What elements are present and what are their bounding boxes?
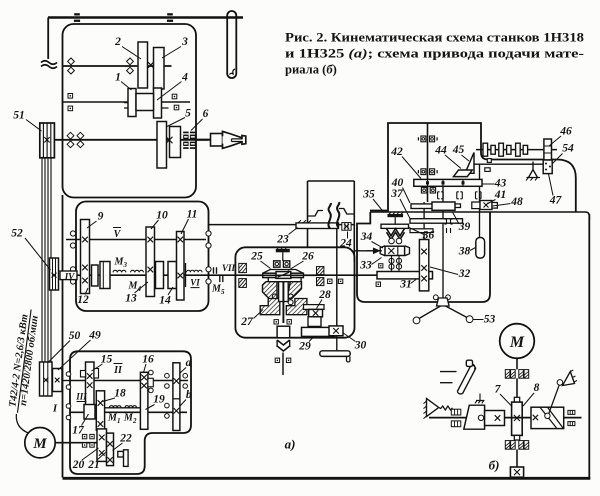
svg-text:39: 39 (458, 221, 471, 233)
svg-text:27: 27 (240, 316, 254, 328)
svg-text:33: 33 (359, 260, 372, 272)
svg-text:3: 3 (181, 36, 188, 48)
svg-text:риала (б): риала (б) (285, 63, 337, 77)
svg-text:54: 54 (562, 143, 574, 155)
svg-text:25: 25 (250, 251, 263, 263)
svg-text:24: 24 (339, 238, 352, 250)
svg-text:21: 21 (87, 459, 100, 471)
svg-text:50: 50 (69, 330, 81, 342)
svg-text:2: 2 (114, 36, 121, 48)
svg-text:42: 42 (390, 146, 403, 158)
svg-text:48: 48 (510, 196, 523, 208)
svg-text:41: 41 (494, 189, 507, 201)
svg-text:19: 19 (153, 394, 165, 406)
svg-text:8: 8 (534, 382, 540, 394)
svg-text:12: 12 (77, 294, 89, 306)
svg-text:I: I (52, 403, 58, 415)
svg-text:б): б) (489, 458, 500, 473)
svg-text:13: 13 (125, 293, 137, 305)
svg-text:40: 40 (391, 177, 404, 189)
svg-text:23: 23 (276, 234, 289, 246)
svg-text:10: 10 (156, 210, 168, 222)
svg-text:52: 52 (11, 228, 23, 240)
svg-text:М: М (509, 334, 525, 351)
svg-text:3: 3 (123, 261, 128, 269)
svg-text:и 1Н325 (а); схема привода под: и 1Н325 (а); схема привода подачи мате- (285, 47, 584, 61)
svg-text:32: 32 (458, 268, 471, 280)
svg-text:5: 5 (221, 288, 225, 296)
svg-text:51: 51 (13, 110, 25, 122)
svg-text:1: 1 (117, 417, 121, 425)
svg-text:43: 43 (494, 178, 507, 190)
svg-text:17: 17 (72, 425, 85, 437)
svg-text:53: 53 (484, 314, 496, 326)
svg-text:4: 4 (181, 72, 188, 84)
svg-text:47: 47 (549, 195, 563, 207)
svg-text:Рис. 2. Кинематическая схема с: Рис. 2. Кинематическая схема станков 1Н3… (285, 31, 584, 45)
svg-text:4: 4 (137, 285, 142, 293)
svg-text:18: 18 (114, 388, 126, 400)
svg-text:1: 1 (115, 72, 121, 84)
svg-text:11: 11 (187, 209, 198, 221)
svg-text:36: 36 (422, 230, 435, 242)
svg-text:а): а) (285, 437, 296, 452)
svg-text:III: III (75, 392, 87, 402)
svg-text:28: 28 (318, 289, 331, 301)
svg-text:22: 22 (119, 433, 132, 445)
svg-text:a: a (186, 357, 192, 369)
svg-text:46: 46 (559, 126, 572, 138)
svg-text:14: 14 (159, 295, 171, 307)
svg-text:VI: VI (190, 278, 200, 288)
svg-text:16: 16 (142, 354, 154, 366)
svg-text:35: 35 (362, 189, 375, 201)
svg-text:2: 2 (132, 417, 137, 425)
svg-text:15: 15 (101, 354, 113, 366)
svg-text:37: 37 (390, 188, 404, 200)
svg-text:М: М (32, 436, 47, 452)
svg-text:5: 5 (185, 108, 191, 120)
svg-text:VII: VII (222, 263, 236, 273)
svg-text:31: 31 (399, 279, 412, 291)
svg-text:29: 29 (298, 341, 311, 353)
svg-text:b: b (186, 389, 192, 401)
svg-text:IV: IV (64, 272, 76, 282)
svg-text:38: 38 (458, 246, 471, 258)
svg-text:45: 45 (452, 144, 465, 156)
svg-text:II: II (113, 365, 123, 376)
svg-text:44: 44 (434, 145, 447, 157)
svg-text:34: 34 (360, 231, 373, 243)
svg-text:30: 30 (354, 340, 367, 352)
svg-text:20: 20 (72, 459, 85, 471)
svg-text:9: 9 (98, 211, 104, 223)
svg-text:6: 6 (203, 108, 209, 120)
